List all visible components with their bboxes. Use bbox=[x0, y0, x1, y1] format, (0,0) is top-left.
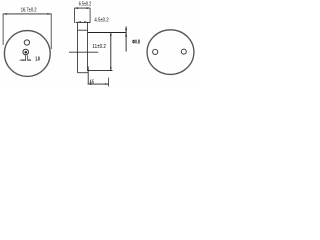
dimension 16.7 right arrow bbox=[47, 13, 51, 15]
body bottom bbox=[78, 72, 89, 74]
flange bottom / dim 4.5 line bbox=[76, 21, 91, 23]
dim 11 down arrow bbox=[110, 67, 112, 71]
extension line left bbox=[2, 14, 4, 46]
dim 11±0.2 vertical line bbox=[110, 33, 112, 71]
front view center ring bbox=[23, 49, 29, 55]
svg-text:Φ0.8: Φ0.8 bbox=[132, 39, 140, 45]
dim 4.5 arrows bbox=[78, 21, 81, 23]
body inner lip line bbox=[78, 29, 88, 31]
front view big circle bbox=[4, 31, 50, 77]
front view small hole circle bbox=[24, 40, 29, 45]
dimension 16.7 line bbox=[3, 13, 51, 15]
body left side bbox=[77, 22, 79, 72]
body right side bbox=[87, 22, 89, 70]
bottom dim extension right bbox=[108, 78, 110, 87]
dim 6.5 left arrow bbox=[75, 7, 78, 9]
dim 6.5 right arrow bbox=[87, 7, 90, 9]
svg-text:11±0.2: 11±0.2 bbox=[92, 44, 106, 50]
hole dim ext legs bbox=[25, 55, 27, 61]
svg-text:1.8: 1.8 bbox=[35, 57, 39, 63]
back view right pin circle bbox=[181, 49, 186, 54]
pin leader vertical with arrows bbox=[125, 26, 127, 51]
bottom dim right arrow bbox=[105, 83, 108, 85]
svg-text:4.5: 4.5 bbox=[90, 79, 94, 85]
pin stub / bottom extension bbox=[87, 67, 89, 84]
extension line right bbox=[50, 14, 52, 50]
dim 11 up arrow bbox=[110, 33, 112, 37]
back view left pin circle bbox=[153, 49, 158, 54]
centerline axis bbox=[69, 51, 98, 53]
back view big circle bbox=[147, 30, 194, 75]
dimension 16.7 left arrow bbox=[3, 13, 7, 15]
flange left side bbox=[74, 8, 76, 23]
hole dim line left part with arrow bbox=[20, 59, 26, 61]
bottom dim left arrow bbox=[88, 83, 91, 85]
front view center dot bbox=[25, 51, 28, 54]
svg-text:6.5±0.2: 6.5±0.2 bbox=[79, 2, 91, 8]
bottom dim 4.5 line bbox=[88, 83, 109, 85]
svg-text:16.7±0.2: 16.7±0.2 bbox=[21, 7, 37, 13]
extension line upper (pin exit level) bbox=[88, 32, 127, 34]
extension line lower (pin tip level) bbox=[87, 70, 112, 72]
hole dim line right part with arrow bbox=[28, 59, 31, 61]
side view flange top / dim line bbox=[74, 7, 90, 9]
svg-text:4.5±0.2: 4.5±0.2 bbox=[94, 17, 108, 23]
flange right side bbox=[89, 8, 91, 23]
